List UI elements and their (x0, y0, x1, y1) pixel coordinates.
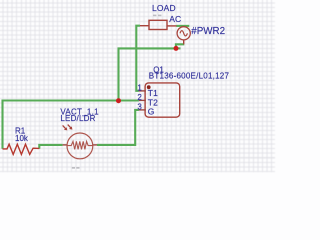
AC source sine wave (180, 31, 187, 36)
svg-text:LED/LDR: LED/LDR (60, 114, 95, 123)
triac Q1 body box (145, 83, 180, 117)
Q1 pin 2 stub (139, 99, 146, 101)
LDR circle (67, 133, 93, 159)
LDR left pin stub (63, 144, 68, 146)
wire net D: R1 right step up to LDR left (39, 145, 62, 149)
svg-text:1: 1 (137, 84, 142, 93)
hidden designator dots above load resistor (153, 15, 156, 17)
Q1 pin 1 stub (139, 90, 146, 92)
wire net A: resistor left to Q1 pin1 (136, 26, 140, 91)
LDR light arrow 2 (68, 125, 71, 129)
svg-text:3: 3 (137, 103, 142, 112)
svg-text:AC: AC (169, 14, 181, 24)
resistor LOAD leads (140, 25, 149, 27)
wire net C: junction left then down to T2 junction (119, 48, 176, 100)
hidden designator dots below LDR (72, 167, 75, 169)
svg-text:2: 2 (137, 93, 142, 102)
wire net C: AC source bottom step to junction (176, 44, 184, 48)
svg-text:#PWR2: #PWR2 (191, 26, 225, 37)
wire net C stub right of junction (176, 47, 181, 49)
Q1 pin-1 marker dot (147, 85, 151, 89)
svg-text:BT136-600E/L01,127: BT136-600E/L01,127 (149, 71, 230, 80)
AC source bottom pin stub (183, 40, 185, 45)
svg-text:10k: 10k (15, 134, 29, 143)
AC source V1 circle (177, 27, 190, 40)
junction dot near AC source (174, 46, 179, 51)
resistor LOAD body (149, 20, 167, 29)
junction dot at T2 net (116, 98, 121, 103)
wire net E: LDR right to Q1 pin3 (G) (97, 110, 139, 145)
wire net C: long horizontal into Q1 pin2 and left loop (3, 101, 139, 149)
svg-text:G: G (148, 107, 155, 117)
wire net B: resistor right tangent over AC source top (176, 25, 189, 27)
LDR internal resistor zigzag (67, 141, 93, 149)
Q1 pin 3 stub (139, 109, 146, 111)
svg-text:LOAD: LOAD (152, 3, 176, 13)
svg-text:T1: T1 (148, 88, 158, 98)
resistor R1 zigzag (3, 144, 40, 154)
LDR right pin stub (92, 144, 97, 146)
LDR light arrow 1 (63, 125, 66, 128)
